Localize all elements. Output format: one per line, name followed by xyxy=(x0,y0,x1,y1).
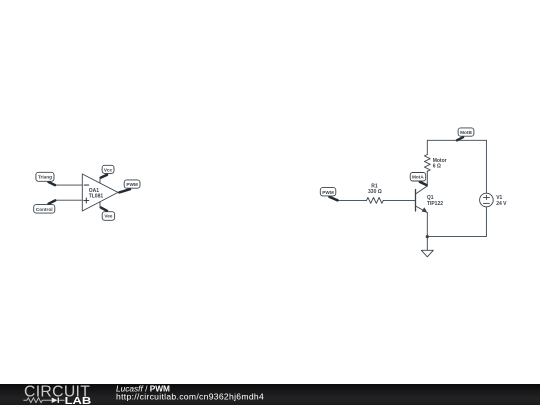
flag Control xyxy=(34,200,56,213)
transistor Q1 emitter lead xyxy=(416,206,428,213)
logo diode bar xyxy=(57,397,59,403)
logo diode triangle xyxy=(52,397,58,403)
svg-text:Vcc: Vcc xyxy=(104,167,113,172)
flag PWM at R1 input xyxy=(320,188,337,201)
source V1 circle xyxy=(480,193,494,207)
svg-text:330 Ω: 330 Ω xyxy=(368,189,382,195)
flag MotB xyxy=(457,128,474,140)
transistor Q1 collector lead xyxy=(416,186,428,194)
wire PWM flag to R1 xyxy=(338,199,366,201)
flag Vee xyxy=(101,208,115,221)
flag PWM at op-amp output xyxy=(119,180,140,193)
op-amp OA1 triangle xyxy=(82,174,118,211)
logo resistor zigzag xyxy=(27,397,42,402)
wire inverting input xyxy=(55,184,82,186)
resistor Motor zigzag xyxy=(424,155,430,172)
flag Triang xyxy=(36,172,55,185)
Q1 emitter arrow xyxy=(422,207,428,212)
V1 minus sign xyxy=(483,202,490,204)
svg-text:24 V: 24 V xyxy=(496,201,507,207)
svg-text:TIP122: TIP122 xyxy=(427,201,443,207)
svg-text:LAB: LAB xyxy=(65,395,92,404)
svg-text:PWM: PWM xyxy=(322,190,334,195)
logo wire segments xyxy=(23,399,64,401)
wire V1 top stub xyxy=(485,140,487,193)
wire non-inverting input xyxy=(56,199,83,201)
svg-text:TL081: TL081 xyxy=(89,194,104,200)
wire ground stub xyxy=(426,237,428,251)
op-amp plus symbol xyxy=(84,198,89,203)
op-amp Vee pin stub xyxy=(99,202,101,208)
svg-text:Vee: Vee xyxy=(104,214,112,219)
junction node at emitter/ground rail xyxy=(426,235,429,238)
resistor R1 zigzag xyxy=(367,198,384,204)
svg-text:MotA: MotA xyxy=(412,175,424,180)
svg-text:6 Ω: 6 Ω xyxy=(433,163,441,169)
svg-text:Triang: Triang xyxy=(38,175,52,180)
svg-text:MotB: MotB xyxy=(460,130,472,135)
wire Q1 collector up to motor xyxy=(426,171,428,186)
V1 plus sign xyxy=(483,195,490,200)
flag Vcc xyxy=(101,165,114,177)
op-amp minus symbol xyxy=(84,184,89,186)
wire Q1 emitter down xyxy=(426,213,428,237)
wire R1 to Q1 base xyxy=(383,199,415,201)
ground symbol xyxy=(421,250,433,256)
transistor Q1 base bar xyxy=(415,190,417,212)
flag MotA xyxy=(410,173,426,186)
svg-text:Control: Control xyxy=(36,207,53,212)
wire V1 bottom to ground rail xyxy=(427,207,486,237)
wire motor top corner to MotB and V1 xyxy=(427,140,486,154)
svg-text:PWM: PWM xyxy=(126,182,138,187)
svg-text:http://circuitlab.com/cn9362hj: http://circuitlab.com/cn9362hj6mdh4 xyxy=(116,391,264,401)
op-amp Vcc pin stub xyxy=(99,178,101,183)
